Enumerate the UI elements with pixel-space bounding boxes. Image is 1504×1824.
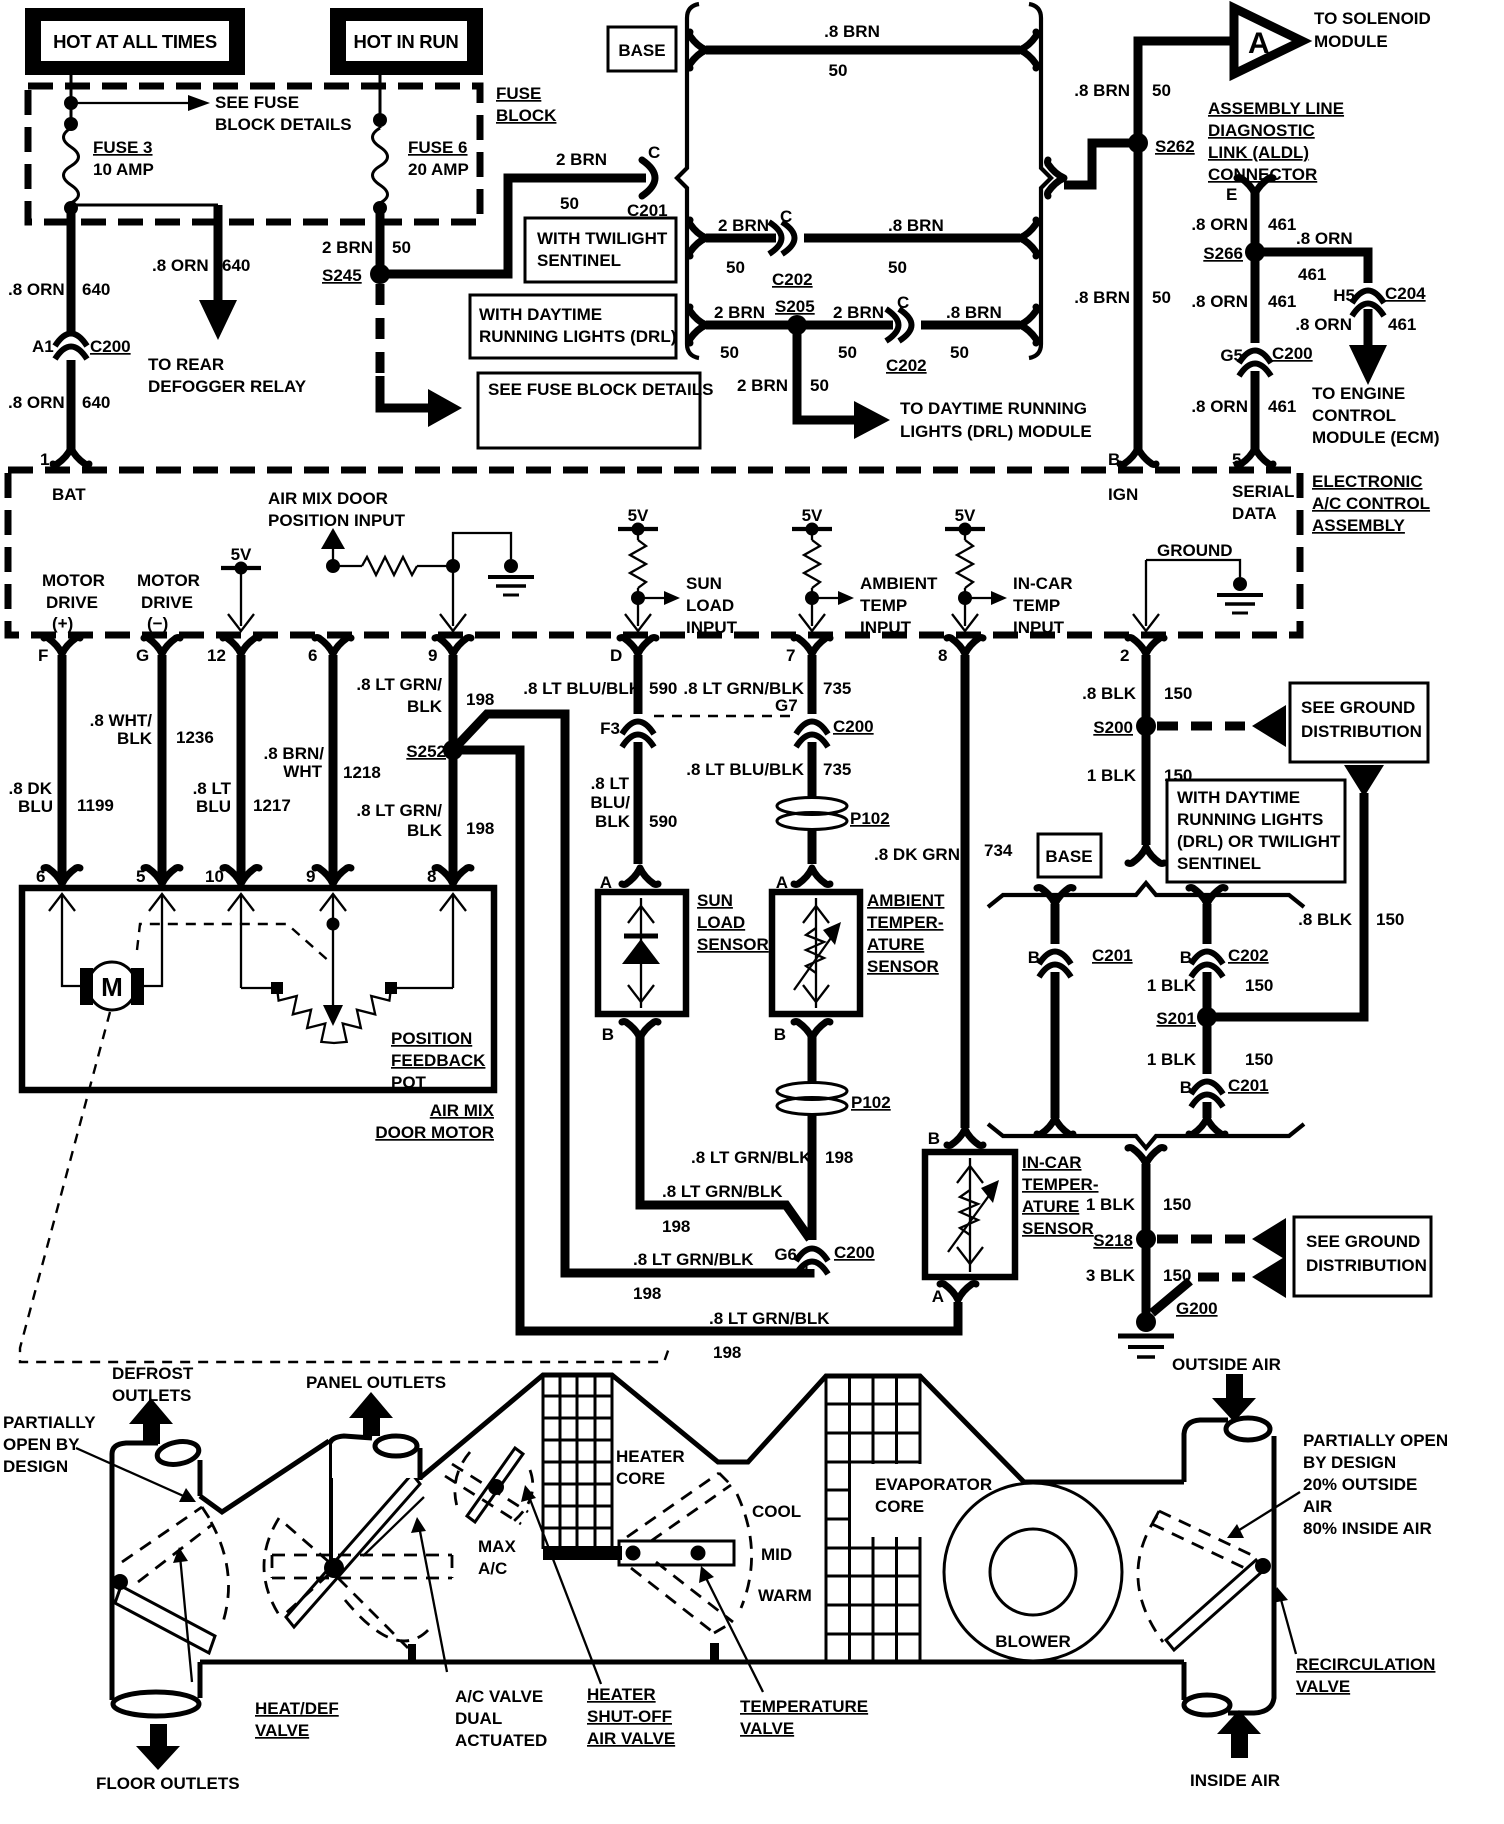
svg-text:150: 150 — [1164, 684, 1192, 703]
svg-text:S200: S200 — [1093, 718, 1133, 737]
box WITH TWILIGHT SENTINEL — [525, 218, 676, 282]
svg-text:TO DAYTIME RUNNING: TO DAYTIME RUNNING — [900, 399, 1087, 418]
svg-text:.8 BRN: .8 BRN — [888, 216, 944, 235]
svg-text:C202: C202 — [772, 270, 813, 289]
fuse F6 element — [373, 128, 388, 203]
mechanical dashed link motor-wiper — [137, 924, 330, 962]
svg-text:BLU: BLU — [18, 797, 53, 816]
splice S218 — [1136, 1229, 1156, 1249]
svg-text:735: 735 — [823, 760, 851, 779]
wire S252 branch 2 to in-car sensor A — [453, 750, 958, 1331]
svg-text:50: 50 — [829, 61, 848, 80]
connector B C201 (lower) — [1203, 1074, 1212, 1102]
svg-text:50: 50 — [838, 343, 857, 362]
a/c valve dashed fan right — [338, 1578, 408, 1648]
dashed branch from G200 to ground distribution arrow — [1152, 1281, 1190, 1313]
top brace (BASE group) — [988, 883, 1304, 907]
svg-text:WITH DAYTIME: WITH DAYTIME — [479, 305, 602, 324]
connector C202 row 2 — [776, 234, 804, 243]
svg-text:ATURE: ATURE — [1022, 1197, 1079, 1216]
svg-text:HOT IN RUN: HOT IN RUN — [354, 31, 459, 52]
internal ground symbol — [488, 559, 534, 595]
heater core bottom bar — [543, 1546, 622, 1560]
svg-text:BLOWER: BLOWER — [995, 1632, 1071, 1651]
panel outlets duct — [330, 1436, 420, 1480]
internal ground symbol right — [1217, 577, 1263, 613]
node — [64, 96, 78, 110]
recirculation valve dashed sweep — [1138, 1516, 1163, 1642]
recirculation valve solid door — [1166, 1560, 1264, 1650]
wire fuse6 down to S245 — [376, 205, 385, 282]
svg-text:80% INSIDE AIR: 80% INSIDE AIR — [1303, 1519, 1432, 1538]
wire pin 9 to motor pin 8 (.8 LT GRN/BLK 198) — [449, 655, 458, 880]
motor pin 6 hook — [44, 868, 80, 885]
pin B hook (in-car) — [947, 1129, 983, 1146]
pin A hook (sun) — [622, 868, 658, 885]
svg-text:G200: G200 — [1176, 1299, 1218, 1318]
connector A1 C200 — [66, 332, 76, 360]
svg-text:150: 150 — [1245, 1050, 1273, 1069]
arrow down to pin 9 — [452, 566, 454, 626]
svg-text:SERIAL: SERIAL — [1232, 482, 1294, 501]
pin 8 hook — [947, 638, 983, 655]
svg-text:SEE FUSE: SEE FUSE — [215, 93, 299, 112]
svg-text:2 BRN: 2 BRN — [718, 216, 769, 235]
svg-text:50: 50 — [950, 343, 969, 362]
svg-text:50: 50 — [726, 258, 745, 277]
svg-text:1236: 1236 — [176, 728, 214, 747]
svg-text:OPEN BY: OPEN BY — [3, 1435, 80, 1454]
svg-text:50: 50 — [720, 343, 739, 362]
max a/c dashed door — [445, 1464, 528, 1524]
svg-text:DEFOGGER RELAY: DEFOGGER RELAY — [148, 377, 307, 396]
pointer heat/def valve label — [180, 1556, 192, 1682]
svg-text:SEE FUSE BLOCK DETAILS: SEE FUSE BLOCK DETAILS — [488, 380, 713, 399]
in-car temperature sensor box — [925, 1152, 1015, 1277]
wire row 2 (with twilight sentinel) — [706, 234, 1020, 243]
wire from HOT IN RUN to fuse 6 — [379, 75, 382, 128]
flag connector A to solenoid module — [1234, 8, 1302, 74]
svg-text:FUSE: FUSE — [496, 84, 541, 103]
svg-text:.8 ORN: .8 ORN — [1191, 292, 1248, 311]
svg-text:RUNNING LIGHTS (DRL): RUNNING LIGHTS (DRL) — [479, 327, 676, 346]
wire pin 8 to in-car sensor B (.8 DK GRN 734) — [961, 655, 970, 1128]
svg-text:MODULE (ECM): MODULE (ECM) — [1312, 428, 1439, 447]
electronic A/C control assembly dashed box — [8, 470, 1300, 635]
svg-text:POSITION: POSITION — [391, 1029, 472, 1048]
svg-text:(+): (+) — [52, 614, 73, 633]
wire arrow to ECM — [1364, 309, 1373, 348]
left grouping brace — [677, 4, 699, 358]
ambient temperature sensor box — [772, 892, 860, 1014]
svg-text:.8 ORN: .8 ORN — [1191, 215, 1248, 234]
node — [373, 113, 387, 127]
svg-text:AIR MIX DOOR: AIR MIX DOOR — [268, 489, 388, 508]
svg-text:1218: 1218 — [343, 763, 381, 782]
svg-text:PARTIALLY OPEN: PARTIALLY OPEN — [1303, 1431, 1448, 1450]
svg-text:(DRL) OR TWILIGHT: (DRL) OR TWILIGHT — [1177, 832, 1341, 851]
svg-text:SENTINEL: SENTINEL — [537, 251, 621, 270]
door stop tick — [408, 1644, 416, 1661]
svg-text:G5: G5 — [1220, 346, 1243, 365]
wire zigzag from brace to S262 — [1064, 143, 1138, 185]
svg-text:150: 150 — [1376, 910, 1404, 929]
air mix position arrow up — [321, 528, 345, 549]
svg-text:BLK: BLK — [595, 812, 631, 831]
svg-text:C202: C202 — [886, 356, 927, 375]
svg-text:.8 LT GRN/BLK: .8 LT GRN/BLK — [691, 1148, 812, 1167]
svg-text:10 AMP: 10 AMP — [93, 160, 154, 179]
a/c valve dashed rect — [272, 1555, 452, 1578]
svg-text:.8 LT: .8 LT — [193, 779, 232, 798]
svg-text:IGN: IGN — [1108, 485, 1138, 504]
wire branch to defogger — [71, 204, 218, 207]
svg-text:.8 BRN: .8 BRN — [824, 22, 880, 41]
max a/c solid door — [467, 1448, 523, 1522]
wire row 3 (with DRL) — [706, 321, 1020, 330]
svg-text:C201: C201 — [1228, 1076, 1269, 1095]
outside/inside air duct tube — [1184, 1418, 1274, 1715]
svg-text:640: 640 — [82, 393, 110, 412]
connector H5 C204 — [1364, 283, 1373, 311]
svg-text:HEAT/DEF: HEAT/DEF — [255, 1699, 339, 1718]
svg-text:50: 50 — [560, 194, 579, 213]
svg-text:G6: G6 — [774, 1245, 797, 1264]
box BASE (top) — [608, 27, 676, 71]
wire pin 6 to motor pin 9 (.8 BRN/WHT 1218) — [329, 655, 338, 880]
pin E hook of ALDL — [1237, 178, 1273, 195]
svg-text:BLK: BLK — [407, 697, 443, 716]
svg-text:HEATER: HEATER — [587, 1685, 656, 1704]
svg-text:.8 LT GRN/: .8 LT GRN/ — [356, 675, 442, 694]
evaporator core grid — [826, 1375, 920, 1662]
wire S266 down to pin 5 — [1251, 252, 1260, 452]
svg-text:2 BRN: 2 BRN — [833, 303, 884, 322]
heater core grid — [543, 1374, 612, 1549]
svg-text:OUTSIDE AIR: OUTSIDE AIR — [1172, 1355, 1281, 1374]
svg-text:B: B — [1180, 1078, 1192, 1097]
connector B C202 — [1203, 944, 1212, 972]
svg-text:DESIGN: DESIGN — [3, 1457, 68, 1476]
svg-text:LIGHTS (DRL) MODULE: LIGHTS (DRL) MODULE — [900, 422, 1092, 441]
svg-text:A: A — [1248, 27, 1270, 60]
arrow to SEE FUSE BLOCK DETAILS — [71, 102, 190, 104]
heat/def valve dashed sweep — [211, 1522, 229, 1628]
thermistor inside ambient sensor — [815, 898, 817, 1008]
svg-text:B: B — [1028, 948, 1040, 967]
svg-text:ELECTRONIC: ELECTRONIC — [1312, 472, 1423, 491]
svg-text:AMBIENT: AMBIENT — [860, 574, 938, 593]
svg-text:10: 10 — [205, 867, 224, 886]
a/c valve dashed fan left — [264, 1518, 281, 1618]
svg-text:TEMPER-: TEMPER- — [1022, 1175, 1099, 1194]
a/c valve solid door — [286, 1474, 420, 1627]
sun load sensor box — [598, 892, 686, 1014]
motor M with brushes — [62, 972, 162, 986]
svg-text:3 BLK: 3 BLK — [1086, 1266, 1136, 1285]
svg-text:TO ENGINE: TO ENGINE — [1312, 384, 1405, 403]
svg-text:198: 198 — [633, 1284, 661, 1303]
pin 1 connector hook — [53, 448, 89, 465]
svg-text:461: 461 — [1298, 265, 1326, 284]
case outline profile — [200, 1441, 329, 1512]
wire sun B to G6 junction — [640, 1036, 810, 1239]
svg-text:HOT AT ALL TIMES: HOT AT ALL TIMES — [53, 31, 217, 52]
pin 12 hook — [223, 638, 259, 655]
hook below bottom brace — [1128, 1148, 1164, 1165]
svg-text:C200: C200 — [90, 337, 131, 356]
svg-text:TEMP: TEMP — [860, 596, 907, 615]
svg-text:5V: 5V — [802, 506, 823, 525]
svg-text:ACTUATED: ACTUATED — [455, 1731, 547, 1750]
svg-text:INSIDE AIR: INSIDE AIR — [1190, 1771, 1280, 1790]
svg-text:VALVE: VALVE — [1296, 1677, 1350, 1696]
svg-text:.8 BRN: .8 BRN — [946, 303, 1002, 322]
pointer temperature valve — [704, 1574, 763, 1692]
splice S201 — [1197, 1007, 1217, 1027]
svg-text:.8 ORN: .8 ORN — [1296, 229, 1353, 248]
C202 branch wire — [1189, 888, 1225, 905]
svg-text:BY DESIGN: BY DESIGN — [1303, 1453, 1396, 1472]
motor pin 9 hook — [315, 868, 351, 885]
svg-text:SENSOR: SENSOR — [697, 935, 769, 954]
svg-text:2: 2 — [1120, 646, 1129, 665]
box WITH DAYTIME RUNNING LIGHTS (DRL) — [470, 295, 676, 358]
wire pin 2 to S200 (.8 BLK 150) — [1142, 655, 1151, 845]
svg-text:C: C — [897, 293, 909, 312]
svg-text:G7: G7 — [775, 696, 798, 715]
svg-text:AMBIENT: AMBIENT — [867, 891, 945, 910]
svg-text:7: 7 — [786, 646, 795, 665]
splice S205 — [787, 315, 807, 335]
svg-text:RUNNING LIGHTS: RUNNING LIGHTS — [1177, 810, 1323, 829]
svg-text:F: F — [38, 646, 48, 665]
node below fuse 6 — [373, 201, 387, 215]
svg-text:.8 LT BLU/BLK: .8 LT BLU/BLK — [523, 679, 641, 698]
splice S200 — [1136, 716, 1156, 736]
pin B hook (ambient) — [794, 1022, 830, 1039]
svg-text:BASE: BASE — [618, 41, 665, 60]
svg-text:50: 50 — [1152, 288, 1171, 307]
connector C202 row 3 — [893, 321, 921, 330]
svg-text:.8 ORN: .8 ORN — [152, 256, 209, 275]
svg-text:A: A — [600, 873, 612, 892]
wire .8 BRN 50 (BASE row) — [706, 46, 1020, 55]
svg-text:MOTOR: MOTOR — [137, 571, 200, 590]
box SEE FUSE BLOCK DETAILS — [478, 373, 700, 448]
svg-text:C201: C201 — [1092, 946, 1133, 965]
svg-text:.8 LT: .8 LT — [591, 774, 630, 793]
svg-text:B: B — [1108, 450, 1120, 469]
svg-text:DIAGNOSTIC: DIAGNOSTIC — [1208, 121, 1315, 140]
svg-text:DISTRIBUTION: DISTRIBUTION — [1301, 722, 1422, 741]
svg-text:DOOR MOTOR: DOOR MOTOR — [375, 1123, 494, 1142]
recirculation valve pivot — [1255, 1558, 1271, 1574]
box BASE (lower) — [1038, 834, 1101, 877]
pointer a/c valve — [419, 1526, 447, 1672]
pin 6 hook — [315, 638, 351, 655]
temperature valve bar — [619, 1541, 734, 1565]
svg-text:640: 640 — [222, 256, 250, 275]
node — [326, 559, 340, 573]
right grouping brace — [1029, 4, 1051, 358]
fuse F3 element — [64, 128, 79, 203]
svg-text:.8 LT GRN/BLK: .8 LT GRN/BLK — [662, 1182, 783, 1201]
triangle arrow down (ground distribution return) — [1344, 765, 1384, 797]
svg-text:TEMPERATURE: TEMPERATURE — [740, 1697, 868, 1716]
svg-text:B: B — [774, 1025, 786, 1044]
svg-text:.8 WHT/: .8 WHT/ — [90, 711, 153, 730]
pin B hook — [1120, 448, 1156, 465]
grommet P102 upper — [777, 798, 890, 830]
svg-text:C: C — [648, 143, 660, 162]
svg-text:.8 DK: .8 DK — [9, 779, 53, 798]
defrost/floor duct tube — [112, 1439, 201, 1716]
pointer recirculation valve — [1280, 1596, 1296, 1654]
svg-text:461: 461 — [1268, 397, 1296, 416]
svg-text:TEMP: TEMP — [1013, 596, 1060, 615]
svg-text:461: 461 — [1268, 215, 1296, 234]
wire S205 down to DRL module arrow — [797, 325, 854, 420]
hook above BASE brace — [1128, 847, 1164, 864]
svg-text:461: 461 — [1388, 315, 1416, 334]
blower — [944, 1483, 1122, 1661]
a/c valve rod — [329, 1441, 333, 1560]
svg-text:8: 8 — [427, 867, 436, 886]
svg-text:P102: P102 — [850, 809, 890, 828]
node below fuse 3 — [64, 201, 78, 215]
svg-text:BLU/: BLU/ — [590, 793, 630, 812]
svg-text:TO REAR: TO REAR — [148, 355, 224, 374]
svg-text:.8 BRN: .8 BRN — [1074, 288, 1130, 307]
svg-text:2 BRN: 2 BRN — [737, 376, 788, 395]
svg-text:EVAPORATOR: EVAPORATOR — [875, 1475, 992, 1494]
svg-text:.8 BRN/: .8 BRN/ — [264, 744, 325, 763]
svg-text:734: 734 — [984, 841, 1013, 860]
svg-text:INPUT: INPUT — [860, 618, 912, 637]
svg-text:H5: H5 — [1333, 286, 1355, 305]
pointer heater shut-off valve — [528, 1494, 601, 1684]
connector G7 C200 — [808, 714, 817, 742]
svg-text:.8 ORN: .8 ORN — [1295, 315, 1352, 334]
wire down to S218 — [1142, 1164, 1151, 1320]
svg-text:C204: C204 — [1385, 284, 1426, 303]
svg-text:1 BLK: 1 BLK — [1086, 1195, 1136, 1214]
svg-text:S252: S252 — [406, 742, 446, 761]
dashed ground wire to see ground distribution — [1157, 722, 1245, 731]
svg-text:WITH DAYTIME: WITH DAYTIME — [1177, 788, 1300, 807]
svg-text:198: 198 — [662, 1217, 690, 1236]
svg-text:WITH TWILIGHT: WITH TWILIGHT — [537, 229, 668, 248]
hook from right brace — [1048, 160, 1065, 196]
svg-text:50: 50 — [392, 238, 411, 257]
svg-text:1 BLK: 1 BLK — [1087, 766, 1137, 785]
motor pin 8 hook — [435, 868, 471, 885]
svg-text:S262: S262 — [1155, 137, 1195, 156]
svg-text:C200: C200 — [834, 1243, 875, 1262]
svg-text:198: 198 — [825, 1148, 853, 1167]
svg-text:198: 198 — [466, 819, 494, 838]
svg-text:.8 ORN: .8 ORN — [1191, 397, 1248, 416]
svg-text:SENSOR: SENSOR — [867, 957, 939, 976]
svg-text:640: 640 — [82, 280, 110, 299]
svg-text:20% OUTSIDE: 20% OUTSIDE — [1303, 1475, 1417, 1494]
svg-text:8: 8 — [938, 646, 947, 665]
svg-text:BASE: BASE — [1045, 847, 1092, 866]
svg-text:.8 LT GRN/: .8 LT GRN/ — [356, 801, 442, 820]
svg-text:D: D — [610, 646, 622, 665]
wire S262 riser to solenoid module — [1138, 41, 1230, 143]
svg-text:5V: 5V — [231, 545, 252, 564]
wire S262 down to pin B — [1134, 143, 1143, 452]
svg-text:BLU: BLU — [196, 797, 231, 816]
svg-text:SUN: SUN — [697, 891, 733, 910]
svg-text:ASSEMBLY: ASSEMBLY — [1312, 516, 1406, 535]
pin A hook (in-car) — [940, 1284, 976, 1301]
svg-text:590: 590 — [649, 812, 677, 831]
svg-text:COOL: COOL — [752, 1502, 801, 1521]
svg-text:MOTOR: MOTOR — [42, 571, 105, 590]
dashed link F3 to G7 — [654, 715, 794, 717]
svg-text:590: 590 — [649, 679, 677, 698]
svg-text:.8 LT BLU/BLK: .8 LT BLU/BLK — [686, 760, 804, 779]
defogger feed arrow — [214, 205, 223, 302]
svg-text:BLOCK: BLOCK — [496, 106, 557, 125]
svg-text:50: 50 — [1152, 81, 1171, 100]
svg-text:WARM: WARM — [758, 1586, 812, 1605]
svg-text:VALVE: VALVE — [740, 1719, 794, 1738]
svg-text:C202: C202 — [1228, 946, 1269, 965]
svg-text:6: 6 — [308, 646, 317, 665]
bottom brace (BASE group) — [988, 1124, 1304, 1148]
svg-text:AIR MIX: AIR MIX — [430, 1101, 495, 1120]
svg-text:S205: S205 — [775, 297, 815, 316]
svg-text:TO SOLENOID: TO SOLENOID — [1314, 9, 1431, 28]
wire fuse3 down — [67, 205, 76, 452]
svg-text:B: B — [602, 1025, 614, 1044]
pin D hook — [620, 638, 656, 655]
svg-text:S266: S266 — [1203, 244, 1243, 263]
heat/def valve solid door — [115, 1586, 215, 1653]
pot wiper arrow — [327, 918, 340, 931]
svg-text:DEFROST: DEFROST — [112, 1364, 194, 1383]
svg-text:50: 50 — [810, 376, 829, 395]
svg-text:FLOOR OUTLETS: FLOOR OUTLETS — [96, 1774, 240, 1793]
wire to internal ground — [453, 533, 511, 566]
temperature valve dashed door up — [627, 1473, 731, 1541]
wire S266 branch right to C204 — [1255, 252, 1368, 288]
wire from triangle down to S201 — [1215, 793, 1364, 1017]
motor pin 5 hook — [144, 868, 180, 885]
node — [446, 559, 460, 573]
svg-text:461: 461 — [1268, 292, 1296, 311]
svg-text:B: B — [928, 1129, 940, 1148]
svg-text:A: A — [932, 1287, 944, 1306]
box SEE GROUND DISTRIBUTION (lower) — [1294, 1217, 1431, 1296]
wire pin F to motor pin 6 (.8 DK BLU 1199) — [58, 655, 67, 880]
svg-text:5: 5 — [136, 867, 145, 886]
pointer 20% open — [1236, 1492, 1300, 1532]
svg-text:.8 LT GRN/BLK: .8 LT GRN/BLK — [683, 679, 804, 698]
svg-text:DISTRIBUTION: DISTRIBUTION — [1306, 1256, 1427, 1275]
node — [64, 117, 78, 131]
svg-text:A: A — [776, 873, 788, 892]
svg-text:SENTINEL: SENTINEL — [1177, 854, 1261, 873]
svg-text:1 BLK: 1 BLK — [1147, 1050, 1197, 1069]
panel arrow — [349, 1392, 393, 1418]
wire E down to S266 — [1251, 192, 1260, 252]
pin G hook — [144, 638, 180, 655]
